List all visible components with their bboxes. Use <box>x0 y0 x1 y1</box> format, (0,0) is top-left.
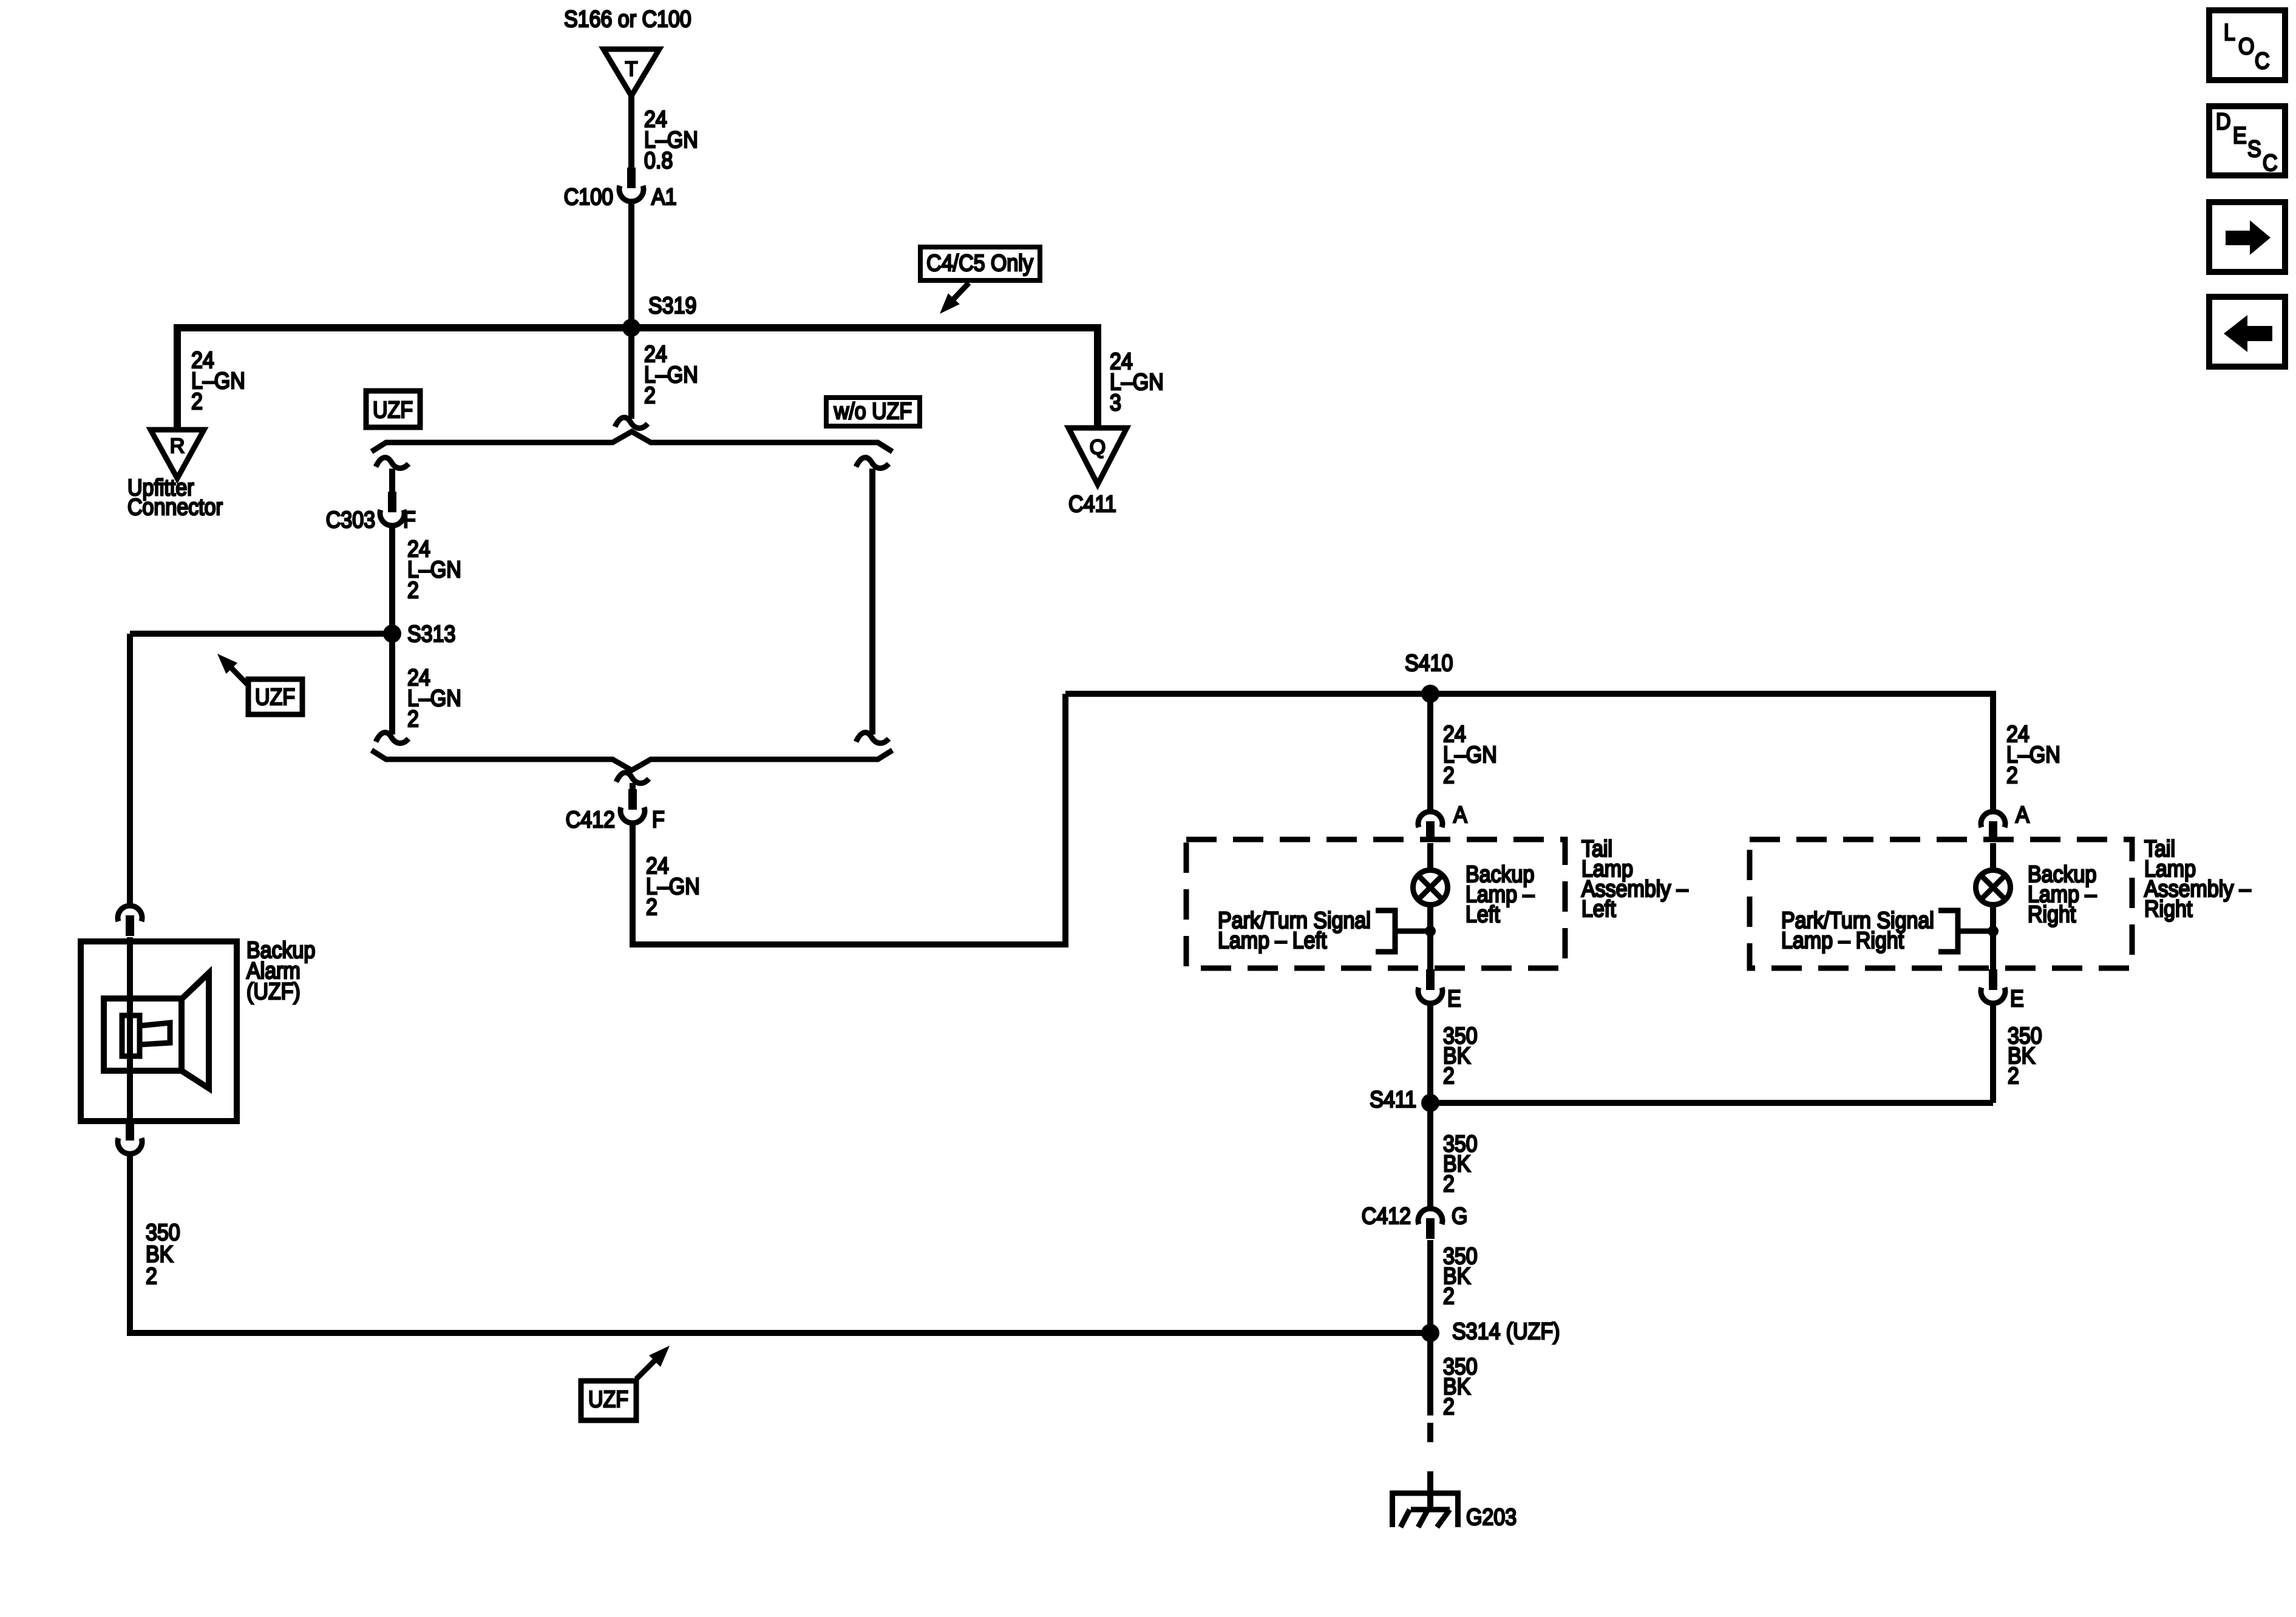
svg-text:w/o UZF: w/o UZF <box>834 398 912 424</box>
svg-text:2: 2 <box>1443 1393 1455 1419</box>
svg-text:Right: Right <box>2028 901 2076 927</box>
svg-text:S410: S410 <box>1405 649 1453 676</box>
svg-text:Left: Left <box>1466 901 1500 927</box>
svg-text:Q: Q <box>1090 436 1106 459</box>
svg-text:2: 2 <box>2006 762 2018 788</box>
svg-text:C412: C412 <box>1362 1202 1411 1229</box>
svg-text:S314 (UZF): S314 (UZF) <box>1452 1318 1560 1344</box>
svg-text:2: 2 <box>644 382 656 408</box>
svg-text:F: F <box>403 506 416 532</box>
svg-text:D: D <box>2216 108 2231 134</box>
svg-text:L: L <box>2224 19 2235 45</box>
svg-text:C303: C303 <box>326 506 375 532</box>
svg-text:Right: Right <box>2144 895 2192 921</box>
svg-text:S411: S411 <box>1370 1086 1416 1112</box>
svg-text:A1: A1 <box>651 183 677 209</box>
svg-text:Connector: Connector <box>127 493 223 520</box>
svg-text:E: E <box>2233 122 2247 148</box>
svg-text:C4/C5 Only: C4/C5 Only <box>926 249 1033 276</box>
svg-text:S166 or C100: S166 or C100 <box>564 5 691 32</box>
svg-text:A: A <box>2016 801 2029 827</box>
svg-text:R: R <box>170 435 185 458</box>
svg-text:UZF: UZF <box>255 683 295 710</box>
svg-text:S: S <box>2247 135 2261 161</box>
svg-text:2: 2 <box>407 705 419 731</box>
svg-text:O: O <box>2238 33 2254 59</box>
svg-text:UZF: UZF <box>588 1386 628 1412</box>
svg-text:2: 2 <box>1443 1062 1455 1088</box>
svg-text:2: 2 <box>191 388 203 414</box>
svg-text:T: T <box>625 58 638 81</box>
svg-text:C: C <box>2255 47 2270 73</box>
svg-text:2: 2 <box>1443 762 1455 788</box>
svg-text:C412: C412 <box>566 806 615 832</box>
svg-text:(UZF): (UZF) <box>246 978 301 1004</box>
svg-text:C: C <box>2263 149 2278 175</box>
svg-text:2: 2 <box>2008 1062 2019 1088</box>
svg-text:3: 3 <box>1110 389 1121 415</box>
svg-text:G: G <box>1452 1202 1467 1229</box>
svg-text:Left: Left <box>1581 895 1616 921</box>
svg-text:0.8: 0.8 <box>644 147 673 173</box>
svg-text:E: E <box>2010 985 2024 1011</box>
svg-text:2: 2 <box>407 577 419 603</box>
svg-text:C100: C100 <box>564 183 613 209</box>
svg-text:UZF: UZF <box>373 396 413 422</box>
svg-text:2: 2 <box>646 893 657 920</box>
svg-text:E: E <box>1447 985 1461 1011</box>
svg-text:A: A <box>1453 801 1467 827</box>
svg-text:C411: C411 <box>1068 490 1116 517</box>
svg-text:Lamp – Left: Lamp – Left <box>1218 927 1326 953</box>
svg-text:2: 2 <box>146 1263 157 1289</box>
svg-text:G203: G203 <box>1466 1503 1517 1530</box>
svg-text:2: 2 <box>1443 1170 1455 1196</box>
svg-text:S313: S313 <box>407 620 455 646</box>
svg-text:2: 2 <box>1443 1283 1455 1309</box>
svg-text:F: F <box>652 806 665 832</box>
svg-text:S319: S319 <box>648 292 696 318</box>
svg-text:Lamp – Right: Lamp – Right <box>1781 927 1904 953</box>
